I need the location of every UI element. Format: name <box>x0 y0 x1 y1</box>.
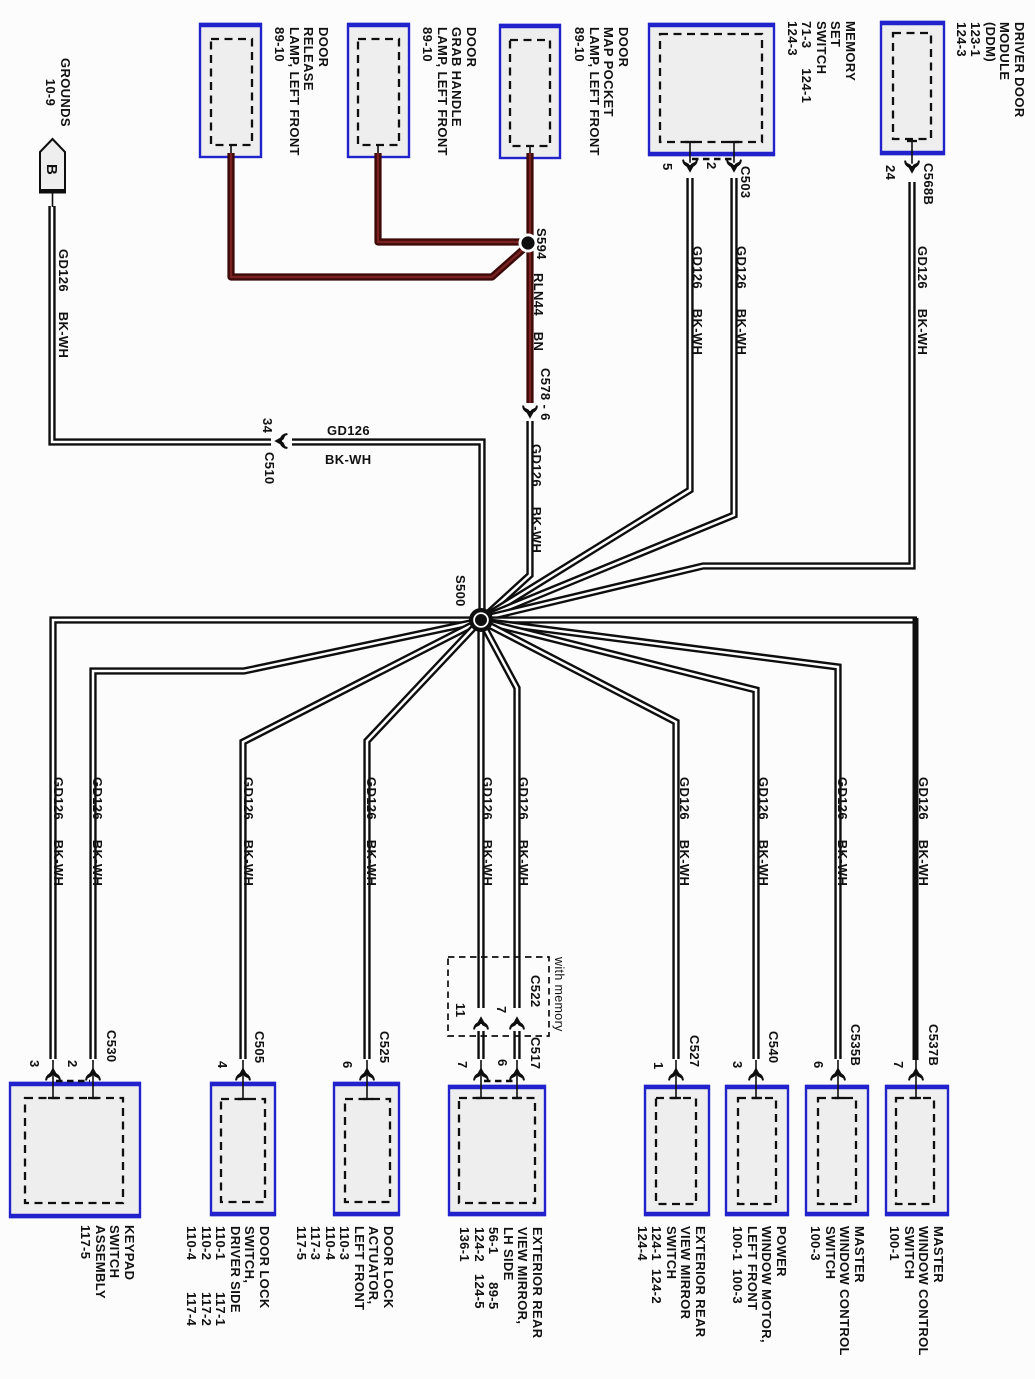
wire RLN44 BN from door release lamp to splice S594 <box>231 153 527 277</box>
pin stub into keypad switch box pin 3 <box>48 1060 58 1098</box>
pin stub inside door map pocket lamp box <box>529 146 531 155</box>
connector label C503 <box>738 166 753 198</box>
label keypad switch assembly box <box>78 1225 136 1299</box>
wire label GD126 BK-WH to C522 pin7 <box>516 777 531 886</box>
wire GD126 BK-WH from C522 pin 7 to C517 pin 6 <box>513 1031 520 1059</box>
label door map pocket lamp box <box>572 27 630 156</box>
label terminal B <box>44 164 59 175</box>
pin label 4 C505 <box>215 1061 230 1069</box>
pin label 6 C535B <box>811 1061 826 1069</box>
pin label 34 C510 <box>260 418 275 433</box>
connector C517 pin 7 <box>474 1069 488 1080</box>
pin stub into mirror LH box pin 6 <box>512 1060 522 1098</box>
label with memory <box>552 957 567 1032</box>
wire GD126 BK-WH from C503 pin 5 to splice S500 <box>483 178 690 618</box>
connector C503 pin 2 <box>727 160 741 171</box>
wire RLN44 BN from door map pocket lamp through splice S594 to C578 <box>526 153 533 403</box>
connector label C522 <box>528 975 543 1007</box>
wire label GD126 BK-WH to C537B <box>916 777 931 886</box>
pin stub into door lock switch box <box>238 1060 248 1099</box>
connector C505 pin 4 <box>236 1069 250 1080</box>
wire GD126 BK-WH from splice S500 to C527 pin 1 <box>481 621 676 1059</box>
label exterior rear view mirror LH side box <box>457 1227 544 1338</box>
wire label GD126 BK-WH C503 pin2 <box>734 246 749 355</box>
wire GD126 BK-WH from splice S500 to C530 pin 2 <box>93 621 480 1059</box>
option region dashed box with memory <box>448 957 549 1036</box>
pin label 11 C522 <box>453 1003 468 1017</box>
component box DOOR GRAB HANDLE LAMP LEFT FRONT <box>347 24 410 157</box>
connector C527 pin 1 <box>669 1069 683 1080</box>
pin stub into power window motor box <box>752 1060 762 1098</box>
connector C530 pin 2 <box>86 1069 100 1080</box>
connector C525 pin 6 <box>360 1069 374 1080</box>
wire GD126 BK-WH from splice S500 right to C537B drop <box>481 616 917 623</box>
wire label GD126 BK-WH to C525 <box>364 777 379 886</box>
wire label GD126 BK-WH C568B <box>915 246 930 355</box>
wire label RLN44 BN <box>531 273 546 351</box>
connector C535B pin 6 <box>831 1069 845 1080</box>
connector C522 pin 7 <box>510 1018 524 1029</box>
connector label C510 <box>262 452 277 484</box>
label door lock switch driver side box <box>184 1226 271 1326</box>
pin stub into door lock actuator box <box>363 1060 373 1099</box>
connector C578 pin 6 <box>523 406 537 417</box>
pin label 24 C568B <box>883 165 898 180</box>
wire label GD126 BK-WH to C530 pin3 <box>51 777 66 886</box>
connector label C530 <box>104 1030 119 1062</box>
component box DRIVER DOOR MODULE (DDM) <box>880 22 945 154</box>
pin stub into mirror LH box pin 7 <box>476 1060 486 1098</box>
dashed connector link C503 <box>692 158 732 161</box>
connector C540 pin 3 <box>749 1069 763 1080</box>
label power window motor left front box <box>730 1226 788 1343</box>
label master window control switch box 100-1 <box>887 1226 945 1356</box>
wire GD126 BK-WH from splice S500 to C540 pin 3 <box>481 621 756 1059</box>
component box DOOR LOCK SWITCH DRIVER SIDE <box>210 1083 276 1215</box>
label exterior rear view mirror switch box <box>635 1226 708 1337</box>
component box DOOR RELEASE LAMP LEFT FRONT <box>199 24 262 157</box>
wire label C578 - 6 <box>538 368 553 421</box>
connector label C517 <box>528 1037 543 1069</box>
label door lock actuator left front box <box>294 1226 396 1310</box>
wire GD126 BK-WH from ground B to C510 <box>52 206 271 442</box>
pin stub C503 pin 5 from memory set switch <box>685 141 695 171</box>
ground terminal B GROUNDS 10-9 <box>39 139 66 207</box>
connector C522 pin 11 <box>474 1018 488 1029</box>
component box MASTER WINDOW CONTROL SWITCH 100-3 <box>805 1086 869 1215</box>
connector C537B pin 7 <box>909 1069 923 1080</box>
label GROUNDS 10-9 <box>43 58 72 127</box>
dashed connector link C530 <box>56 1080 90 1083</box>
pin stub C568B pin 24 from driver door module <box>907 140 917 172</box>
pin label 3 C530 <box>27 1060 42 1068</box>
component box MASTER WINDOW CONTROL SWITCH 100-1 <box>885 1086 949 1215</box>
component box KEYPAD SWITCH ASSEMBLY <box>9 1083 141 1217</box>
pin label 2 C530 <box>65 1060 80 1068</box>
pin label 7 C522 <box>494 1006 509 1014</box>
label driver door module box <box>954 22 1027 118</box>
pin label 1 C527 <box>651 1062 666 1070</box>
pin label 7 C517 <box>455 1061 470 1069</box>
wire GD126 BK-WH from splice S500 to C525 pin 6 <box>367 621 480 1059</box>
pin stub into keypad switch box pin 2 <box>88 1060 98 1098</box>
pin label 3 C540 <box>730 1061 745 1069</box>
connector C517 pin 6 <box>510 1069 524 1080</box>
connector C510 pin 34 <box>276 434 287 448</box>
connector label C568B <box>921 163 936 205</box>
wire GD126 BK-WH from C522 pin 11 to C517 pin 7 <box>477 1031 484 1059</box>
component box EXTERIOR REAR VIEW MIRROR SWITCH <box>644 1086 710 1215</box>
wire GD126 BK-WH from splice S500 to C535B pin 6 <box>481 621 838 1059</box>
wire label GD126 BK-WH to C522 pin11 <box>480 777 495 886</box>
component box POWER WINDOW MOTOR LEFT FRONT <box>725 1086 789 1215</box>
label memory set switch box <box>785 21 858 103</box>
connector C530 pin 3 <box>46 1069 60 1080</box>
label door grab handle lamp box <box>420 27 478 156</box>
wire GD126 BK-WH vertical drop to C537B pin 7 <box>913 618 919 1060</box>
splice S594 <box>519 234 538 253</box>
wire label BK-WH horizontal <box>325 453 372 468</box>
pin stub into mirror switch box <box>671 1060 681 1098</box>
connector C568B pin 24 <box>905 161 919 172</box>
connector label C535B <box>848 1024 863 1066</box>
connector label C525 <box>377 1031 392 1063</box>
wire GD126 BK-WH from splice S500 to C522 pin 11 <box>477 622 484 1008</box>
label door release lamp box <box>272 27 330 156</box>
connector label C537B <box>926 1024 941 1066</box>
pin stub into master window control switch box 100-1 <box>911 1060 921 1098</box>
wire label GD126 BK-WH to C530 pin2 <box>90 777 105 886</box>
wire GD126 BK-WH from C568B pin 24 to splice S500 <box>481 182 912 619</box>
label splice S500 <box>453 575 468 607</box>
connector C503 pin 5 <box>683 160 697 171</box>
component box DOOR LOCK ACTUATOR LEFT FRONT <box>333 1083 400 1215</box>
splice S500 <box>469 608 493 632</box>
wire GD126 BK-WH from splice S500 to C530 pin 3 <box>53 620 479 1059</box>
dashed connector link C517 <box>484 1080 514 1083</box>
component box DOOR MAP POCKET LAMP LEFT FRONT <box>499 25 561 158</box>
wire RLN44 BN from door grab handle lamp to splice S594 <box>378 153 523 242</box>
pin label 5 C503 <box>660 163 675 171</box>
label splice S594 <box>534 228 549 260</box>
wire GD126 BK-WH from splice S500 to C522 pin 7 <box>481 621 517 1008</box>
wire label GD126 BK-WH ground drop <box>56 249 71 358</box>
connector label C540 <box>766 1031 781 1063</box>
pin label 6 C525 <box>340 1061 355 1069</box>
pin stub C503 pin 2 from memory set switch <box>729 141 739 171</box>
wire GD126 BK-WH from C578 to splice S500 <box>483 421 530 618</box>
wire label GD126 BK-WH to C535B <box>835 777 850 886</box>
wire GD126 BK-WH from C503 pin 2 to splice S500 <box>483 178 734 618</box>
label master window control switch box 100-3 <box>808 1226 866 1356</box>
connector label C505 <box>252 1031 267 1063</box>
wire label GD126 BK-WH C503 pin5 <box>690 246 705 355</box>
pin stub inside door release lamp box <box>230 145 232 154</box>
pin stub inside door grab handle lamp box <box>377 145 379 154</box>
pin label 7 C537B <box>891 1061 906 1069</box>
wire label GD126 horizontal <box>327 424 370 439</box>
pin label 6 C517 <box>495 1059 510 1067</box>
connector label C527 <box>687 1035 702 1067</box>
wire label GD126 BK-WH to C527 <box>677 777 692 886</box>
wire label GD126 BK-WH below C578 <box>529 444 544 553</box>
wire label GD126 BK-WH to C505 <box>241 777 256 886</box>
component box MEMORY SET SWITCH <box>648 24 775 155</box>
pin stub into master window control switch box <box>835 1060 845 1098</box>
wire GD126 BK-WH from splice S500 to C505 pin 4 <box>243 621 480 1059</box>
wire label GD126 BK-WH to C540 <box>756 777 771 886</box>
pin label 2 C503 <box>704 162 719 170</box>
component box EXTERIOR REAR VIEW MIRROR LH SIDE <box>448 1086 546 1215</box>
wire GD126 BK-WH from C510 to splice S500 <box>292 442 482 617</box>
